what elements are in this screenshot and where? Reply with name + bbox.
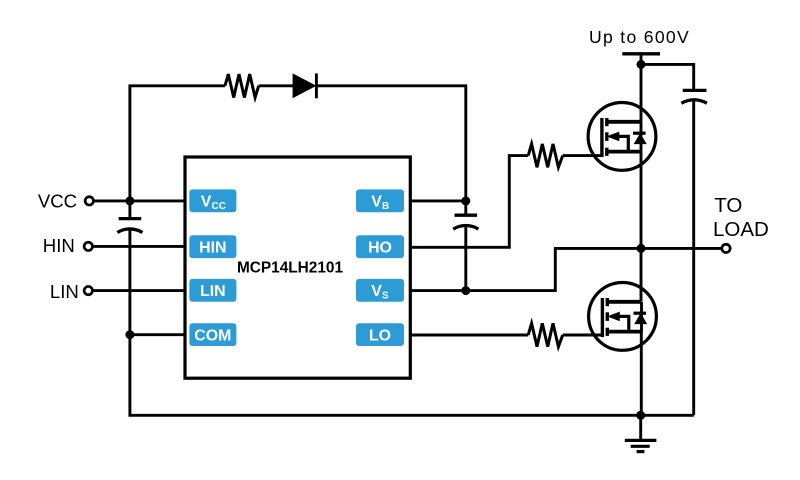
svg-text:HIN: HIN xyxy=(199,240,226,257)
Q1 source lead xyxy=(607,150,641,154)
pin LO box xyxy=(356,323,404,346)
Q2 channel segment top xyxy=(606,298,609,306)
wire gate resistor to Q2 gate xyxy=(563,334,603,337)
svg-text:LO: LO xyxy=(369,328,391,345)
node COM junction xyxy=(125,330,134,339)
pin LIN box xyxy=(189,279,236,302)
resistor low-side gate xyxy=(528,323,563,346)
node switch junction xyxy=(637,244,646,253)
diode bootstrap xyxy=(293,73,316,98)
svg-text:TO: TO xyxy=(714,194,742,217)
Q2 channel segment middle xyxy=(606,312,609,321)
node 600V junction xyxy=(637,60,646,69)
svg-text:V: V xyxy=(371,283,382,300)
svg-text:HO: HO xyxy=(368,240,392,257)
Q2 circle xyxy=(589,283,657,351)
terminal LIN xyxy=(84,286,92,294)
svg-text:V: V xyxy=(371,194,382,211)
node VS junction xyxy=(461,286,470,295)
Q1 gate bar xyxy=(600,118,603,157)
svg-text:Up to 600V: Up to 600V xyxy=(589,27,690,47)
svg-text:LIN: LIN xyxy=(50,281,79,302)
wire VS pin to switch node xyxy=(410,248,641,290)
svg-text:CC: CC xyxy=(212,201,226,212)
svg-text:S: S xyxy=(382,291,389,302)
capacitor VCC bypass xyxy=(117,201,142,335)
wire VCC junction up to bootstrap row xyxy=(130,86,225,201)
wire VB pin to bootstrap node xyxy=(410,199,466,202)
wire bottom rail to bus capacitor branch xyxy=(641,414,694,417)
svg-text:HIN: HIN xyxy=(43,235,75,256)
Q1 body lead with arrow xyxy=(616,136,628,151)
Q1 channel segment middle xyxy=(605,132,608,141)
pin VB box xyxy=(356,189,404,212)
wire LIN input to IC xyxy=(93,289,185,292)
terminal HIN xyxy=(84,242,92,250)
svg-text:B: B xyxy=(382,201,389,212)
pin HO box xyxy=(356,235,404,258)
transistor Q1 high-side MOSFET xyxy=(588,102,656,170)
wire diode to VB node xyxy=(316,86,465,201)
Q2 source lead xyxy=(607,330,641,334)
ground xyxy=(625,415,657,451)
Q1 circle xyxy=(588,102,656,170)
svg-text:V: V xyxy=(201,194,212,211)
wire HO pin to gate resistor xyxy=(410,156,528,248)
wire 600V node to top capacitor xyxy=(641,64,694,90)
Q2 gate bar xyxy=(601,298,604,337)
terminal TO LOAD xyxy=(722,244,730,252)
node ground rail junction xyxy=(636,411,645,420)
svg-text:LIN: LIN xyxy=(200,283,226,300)
svg-text:MCP14LH2101: MCP14LH2101 xyxy=(237,259,344,276)
Q2 body diode xyxy=(634,312,647,315)
svg-text:VCC: VCC xyxy=(38,190,77,211)
node VCC junction xyxy=(125,196,134,205)
wire Q2 source to ground rail xyxy=(640,331,643,415)
terminal 600V supply bar xyxy=(622,52,660,55)
capacitor bus xyxy=(681,90,707,415)
wire COM pin xyxy=(130,333,185,336)
Q1 body diode xyxy=(633,132,646,135)
wire HIN input to IC xyxy=(93,245,185,248)
wire LO pin to gate resistor xyxy=(410,334,528,337)
IC U1 MCP14LH2101 body xyxy=(185,157,410,378)
Q2 drain lead xyxy=(607,300,641,304)
Q2 channel segment bottom xyxy=(606,328,609,336)
wire 600V bar down to Q1 drain xyxy=(640,54,643,122)
svg-text:COM: COM xyxy=(194,328,231,345)
wire VCC input to IC xyxy=(94,199,185,202)
capacitor bootstrap xyxy=(453,201,478,291)
Q1 drain lead xyxy=(607,120,641,124)
Q1 channel segment bottom xyxy=(605,148,608,156)
wire gate resistor to Q1 gate xyxy=(563,154,602,157)
svg-text:LOAD: LOAD xyxy=(713,218,769,241)
wire switch node to load terminal xyxy=(641,247,722,250)
terminal VCC xyxy=(85,197,93,205)
transistor Q2 low-side MOSFET xyxy=(589,283,657,351)
Q1 channel segment top xyxy=(605,118,608,126)
resistor high-side gate xyxy=(528,144,563,167)
Q2 body lead with arrow xyxy=(617,316,629,331)
node VB junction xyxy=(461,196,470,205)
wire resistor to diode xyxy=(259,84,293,87)
pin HIN box xyxy=(189,235,236,258)
pin VCC box xyxy=(189,189,236,212)
resistor bootstrap xyxy=(225,74,259,97)
wire COM down to bottom rail xyxy=(130,335,641,416)
pin VS box xyxy=(356,279,404,302)
pin COM box xyxy=(189,323,236,346)
wire Q1 source to switch node and Q2 drain xyxy=(640,152,643,302)
